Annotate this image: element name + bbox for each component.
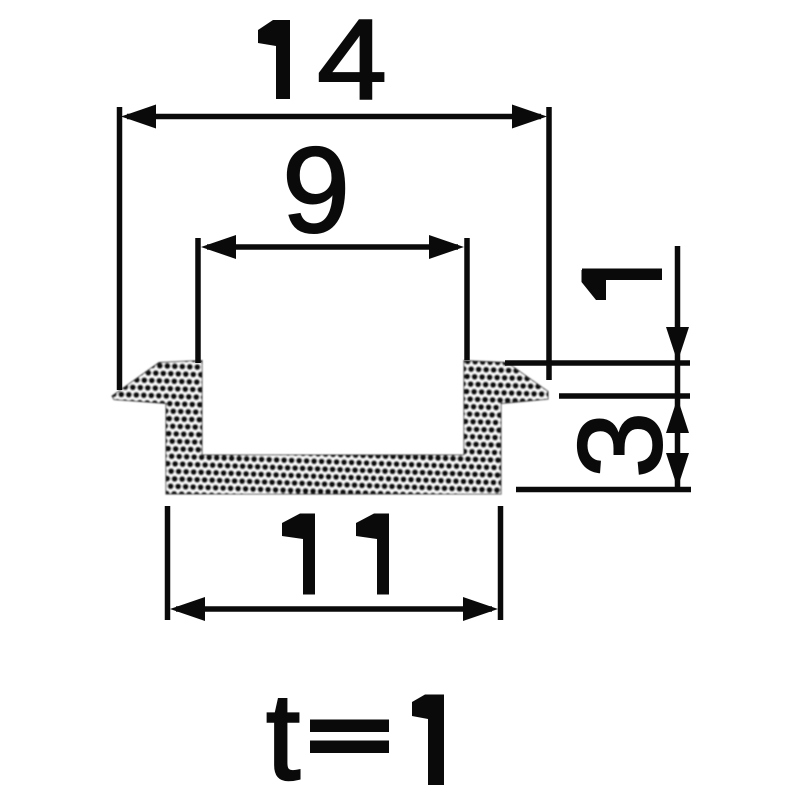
- dimension text 1 (rotated, drawn as path): [582, 269, 663, 301]
- right-side extension line: bottom of flange: [559, 393, 690, 399]
- svg-text:4: 4: [317, 0, 387, 124]
- dimension text 11 : drawn as paths (no serif): [282, 514, 315, 595]
- dimension line 11: [176, 606, 492, 612]
- extension line left (11): [165, 506, 171, 620]
- extension line right (9): [464, 238, 470, 360]
- extension line left (9): [195, 238, 201, 363]
- vertical dimension line (1 and 3): [675, 246, 681, 490]
- channel profile cross-section (halftone fill): [112, 361, 548, 495]
- svg-text:t: t: [266, 669, 300, 800]
- dimension line 9: [207, 244, 458, 250]
- svg-text:9: 9: [282, 122, 350, 258]
- extension line right (11): [498, 506, 504, 620]
- svg-text:3: 3: [554, 412, 687, 478]
- extension line left (14): [117, 107, 123, 390]
- right-side extension line: top of flange: [505, 360, 690, 366]
- extension line right (14): [546, 107, 552, 380]
- right-side extension line: bottom of profile: [516, 487, 691, 493]
- dimension line 14: [127, 114, 541, 120]
- dimension text 14 : digit 1 drawn as path (no serif): [258, 20, 290, 99]
